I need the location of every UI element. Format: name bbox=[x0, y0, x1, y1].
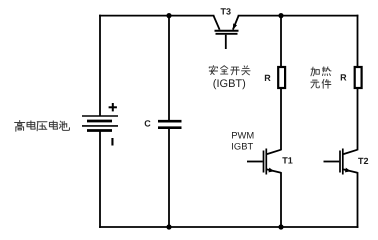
battery minus mark bbox=[111, 138, 113, 146]
transistor T3 safety-switch IGBT bbox=[214, 16, 239, 49]
label 安全开关 annotation (hand-drawn CJK) bbox=[209, 66, 250, 75]
wire R1 to T1 collector bbox=[280, 89, 282, 150]
battery plus mark bbox=[109, 103, 117, 111]
capacitor C1 bbox=[158, 121, 182, 128]
node R1 branch top junction bbox=[278, 13, 283, 18]
svg-text:IGBT: IGBT bbox=[231, 140, 253, 151]
resistor R2 bbox=[355, 67, 362, 88]
label 元件 annotation (hand-drawn CJK) bbox=[311, 79, 331, 88]
wire T2 emitter down bbox=[357, 173, 359, 227]
svg-text:T2: T2 bbox=[358, 156, 369, 166]
wire battery positive lead bbox=[99, 16, 101, 116]
wire capacitor branch bottom bbox=[168, 129, 170, 227]
svg-text:R: R bbox=[264, 73, 271, 83]
wire T1 emitter down bbox=[280, 173, 282, 227]
label 高电压电池 annotation (hand-drawn CJK) bbox=[15, 121, 70, 132]
resistor R1 bbox=[278, 67, 285, 88]
wire bottom bus bbox=[100, 226, 358, 228]
wire right branch top to R2 bbox=[357, 16, 359, 66]
transistor T1 PWM IGBT bbox=[247, 149, 281, 175]
wire top bus right segment bbox=[239, 15, 358, 17]
battery BT1 bbox=[82, 116, 118, 131]
transistor T2 PWM IGBT bbox=[324, 149, 358, 175]
node capacitor bottom junction bbox=[166, 224, 171, 229]
wire top bus left segment bbox=[100, 15, 214, 17]
wire R1 branch top bbox=[280, 16, 282, 67]
label 加热 annotation (hand-drawn CJK) bbox=[311, 67, 331, 76]
node T1 emitter bottom junction bbox=[278, 224, 283, 229]
svg-text:PWM: PWM bbox=[231, 130, 254, 141]
wire R2 to T2 collector bbox=[357, 89, 359, 150]
wire battery negative lead bbox=[99, 131, 101, 227]
svg-text:(IGBT): (IGBT) bbox=[213, 78, 246, 90]
svg-text:C: C bbox=[144, 119, 151, 129]
svg-text:T3: T3 bbox=[221, 6, 232, 16]
svg-text:R: R bbox=[340, 73, 347, 83]
svg-text:T1: T1 bbox=[282, 156, 293, 166]
node capacitor top junction bbox=[166, 13, 171, 18]
wire capacitor branch top bbox=[168, 16, 170, 120]
